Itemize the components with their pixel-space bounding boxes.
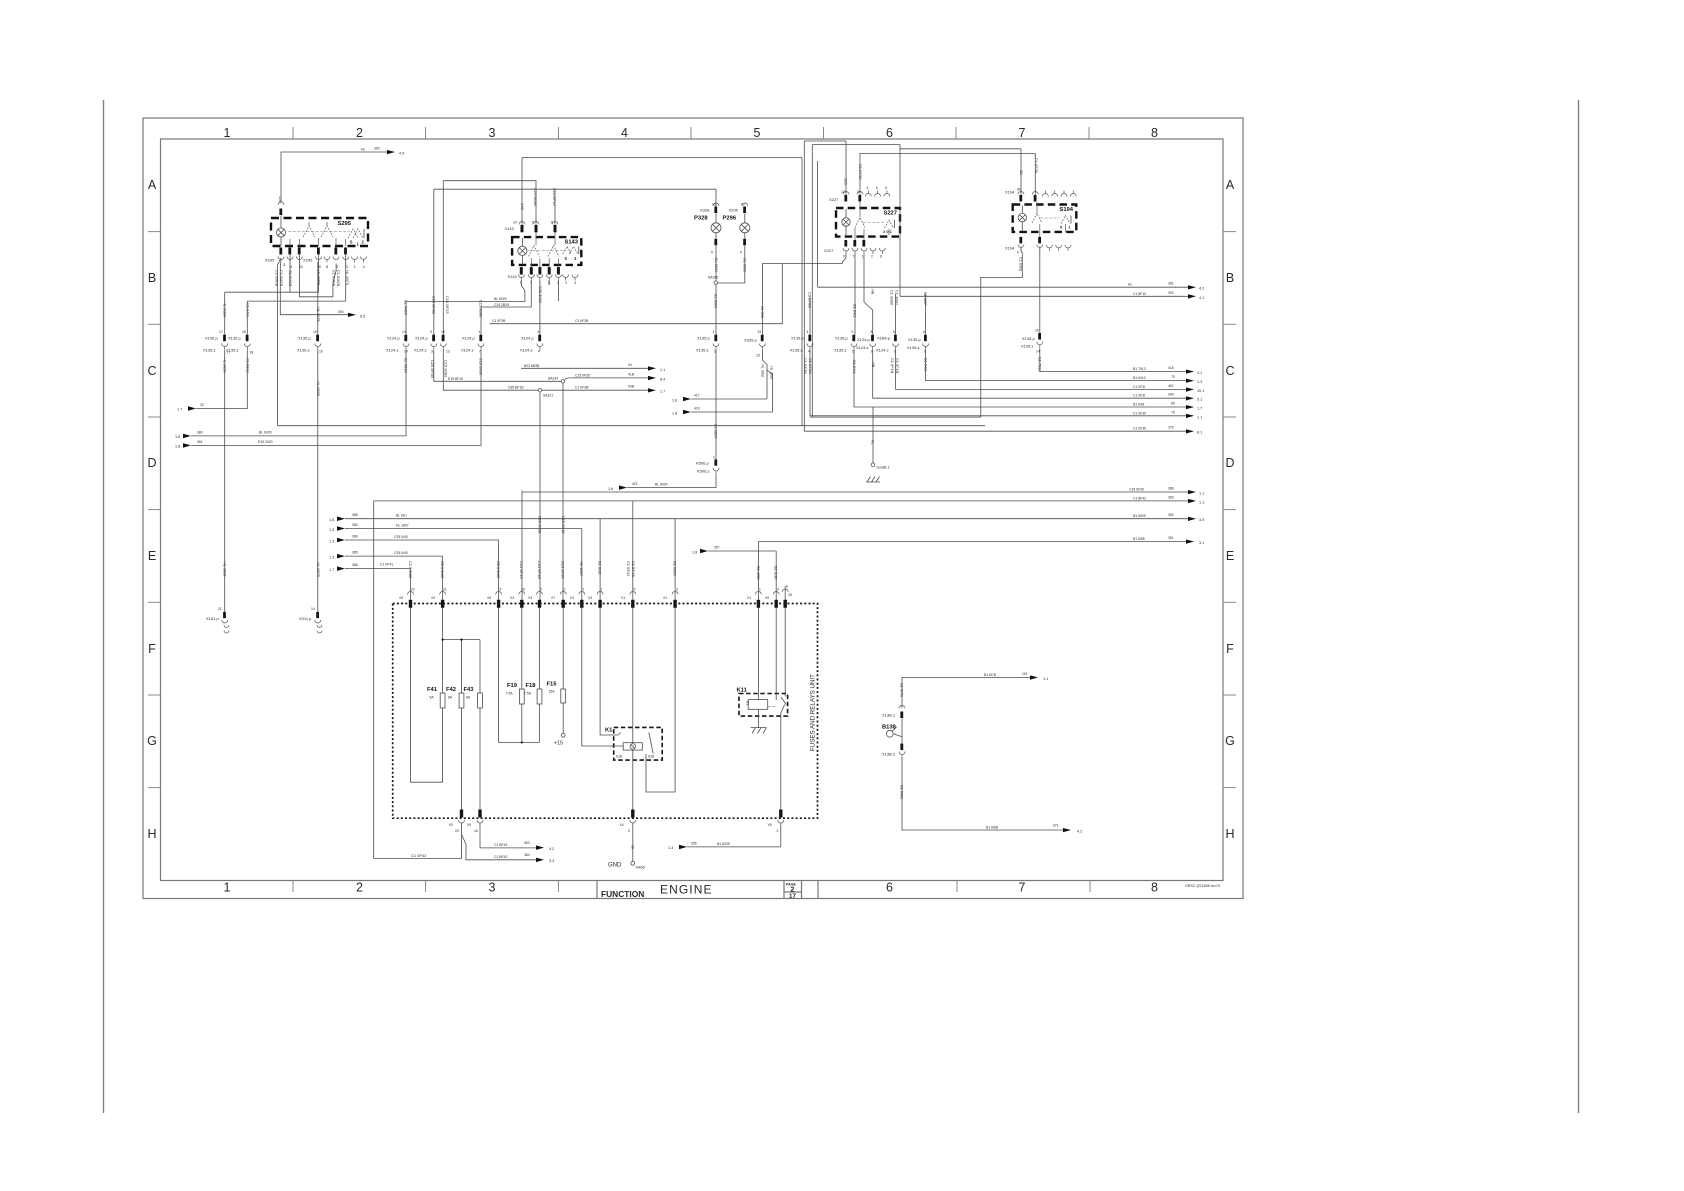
- svg-text:C25 04I0: C25 04I0: [394, 551, 408, 555]
- svg-text:C25 BF1B: C25 BF1B: [537, 561, 542, 579]
- svg-text:1.8: 1.8: [672, 411, 677, 415]
- svg-text:C25 BF3B: C25 BF3B: [432, 296, 437, 314]
- svg-text:X296: X296: [729, 208, 739, 213]
- svg-text:38: 38: [630, 845, 634, 849]
- svg-text:2: 2: [356, 881, 363, 895]
- svg-text:6: 6: [893, 330, 895, 334]
- connector X124 pin 14: [386, 300, 409, 373]
- S295 top connector pin 11B: [278, 196, 284, 219]
- left arrow 386 C1 0F41: [329, 563, 411, 572]
- wire h2 C15 2B29: [481, 280, 531, 335]
- svg-text:6: 6: [551, 221, 553, 225]
- svg-text:7: 7: [1019, 881, 1026, 895]
- column numbers bottom: [224, 881, 1159, 895]
- svg-text:1: 1: [479, 330, 481, 334]
- fuse F41: [427, 687, 445, 708]
- svg-text:1: 1: [713, 456, 715, 460]
- svg-text:1.6: 1.6: [672, 398, 677, 402]
- svg-text:B1 64I1: B1 64I1: [853, 304, 858, 317]
- svg-text:X6: X6: [487, 596, 491, 600]
- svg-text:401: 401: [1168, 384, 1174, 388]
- svg-text:1.8: 1.8: [175, 435, 180, 439]
- svg-text:K11: K11: [737, 688, 748, 694]
- S143 switch contact 1: [529, 246, 540, 257]
- fuse unit top pin rects: [409, 600, 787, 608]
- svg-text:P296: P296: [723, 216, 737, 222]
- wire S227 pin3 up to bus C: [859, 153, 861, 195]
- svg-text:BL 6024: BL 6024: [713, 294, 718, 309]
- inner drawing frame: [161, 139, 1224, 881]
- svg-text:GND: GND: [608, 863, 622, 869]
- wire P328 down through splice: [715, 246, 717, 281]
- svg-text:B1 6I7B: B1 6I7B: [900, 683, 905, 697]
- svg-text:E15 BF15: E15 BF15: [448, 377, 463, 381]
- svg-text:4: 4: [807, 330, 809, 334]
- svg-text:C25 04I0: C25 04I0: [394, 535, 408, 539]
- svg-text:X124.s: X124.s: [386, 348, 398, 353]
- svg-text:X124.p: X124.p: [387, 336, 400, 341]
- svg-text:1.3: 1.3: [1197, 380, 1202, 384]
- connector X124 pin 1/7: [461, 300, 484, 376]
- arrow line C1 0F3B from SA221: [542, 385, 666, 394]
- svg-text:6.5: 6.5: [360, 315, 365, 319]
- svg-text:X4: X4: [620, 823, 624, 827]
- svg-text:1.3: 1.3: [329, 528, 334, 532]
- svg-text:C1 0F39: C1 0F39: [1133, 411, 1146, 415]
- svg-text:1.8: 1.8: [692, 550, 697, 554]
- connector X124 pin 9: [414, 330, 437, 354]
- svg-text:C1 0F3B: C1 0F3B: [492, 319, 506, 323]
- svg-text:C85 BF1B: C85 BF1B: [508, 386, 524, 390]
- wire SA234 down to fuse unit: [562, 383, 564, 600]
- svg-text:6: 6: [923, 330, 925, 334]
- svg-text:H: H: [1225, 827, 1234, 841]
- svg-text:C1 8F10: C1 8F10: [1133, 292, 1146, 296]
- top bus C to S194 switch: [860, 152, 1035, 154]
- svg-text:4: 4: [574, 281, 576, 285]
- svg-text:C1 04I2: C1 04I2: [245, 303, 250, 317]
- svg-text:C25 B03B: C25 B03B: [533, 188, 538, 206]
- connector X124 pin 18: [430, 330, 450, 378]
- svg-text:14: 14: [1036, 350, 1040, 354]
- svg-text:X135.s: X135.s: [696, 348, 708, 353]
- svg-text:1: 1: [583, 588, 585, 592]
- svg-text:C1 BF43: C1 BF43: [494, 843, 507, 847]
- svg-text:HL: HL: [871, 440, 875, 444]
- svg-text:1.7: 1.7: [329, 568, 334, 572]
- svg-text:18: 18: [441, 330, 445, 334]
- svg-text:+15: +15: [554, 741, 563, 747]
- svg-text:X194: X194: [1005, 246, 1015, 251]
- svg-text:HL 30B: HL 30B: [770, 366, 775, 379]
- svg-text:X135.p: X135.p: [908, 337, 921, 342]
- svg-text:2: 2: [777, 829, 779, 833]
- connector X315.p: [299, 607, 322, 633]
- svg-text:26: 26: [521, 588, 525, 592]
- S227 internal dash link: [863, 222, 884, 224]
- rotated labels on risers: [432, 296, 450, 314]
- svg-text:14: 14: [311, 607, 315, 611]
- svg-text:A: A: [1226, 178, 1235, 192]
- svg-text:C1 BF42: C1 BF42: [494, 855, 507, 859]
- svg-text:364: 364: [524, 853, 530, 857]
- arrow line C15 0F35 from SA234: [565, 372, 666, 381]
- svg-text:HL 1026: HL 1026: [223, 562, 228, 577]
- svg-text:F18: F18: [526, 683, 537, 689]
- sensor B138: [882, 719, 902, 744]
- svg-text:B: B: [1226, 271, 1234, 285]
- svg-text:3: 3: [857, 190, 859, 194]
- svg-text:8: 8: [1151, 126, 1158, 140]
- svg-text:C1 BF4B: C1 BF4B: [631, 561, 636, 577]
- svg-text:X135.p: X135.p: [697, 336, 710, 341]
- svg-text:S194: S194: [1059, 207, 1073, 213]
- K1 switch: [649, 733, 653, 754]
- connector X135 pin 3: [696, 330, 719, 354]
- S194 internal stubs: [1037, 202, 1066, 237]
- S194 top pins X194: [1005, 188, 1076, 202]
- svg-text:C1 0F1B: C1 0F1B: [890, 358, 895, 374]
- svg-text:C1 0F39: C1 0F39: [1133, 427, 1146, 431]
- right connector row pin 6b: [907, 292, 929, 371]
- K11 ground symbol: [751, 728, 767, 734]
- svg-text:X124.p: X124.p: [857, 337, 870, 342]
- wire S143 pin2 down: [557, 280, 559, 301]
- svg-text:7.5A: 7.5A: [506, 692, 514, 696]
- svg-text:C1 30B2: C1 30B2: [894, 290, 899, 305]
- connector X135 pin 15: [744, 330, 765, 358]
- svg-text:417: 417: [694, 394, 700, 398]
- svg-text:X3: X3: [528, 596, 532, 600]
- svg-text:F: F: [1226, 642, 1234, 656]
- svg-text:2: 2: [540, 588, 542, 592]
- K11 wires and switch: [757, 608, 759, 728]
- svg-text:5A: 5A: [466, 696, 471, 700]
- svg-text:18: 18: [242, 330, 246, 334]
- wire riser x782.3 from 263.5 to C1 0F3B line: [781, 264, 783, 324]
- S194 switch contact: [1032, 214, 1042, 224]
- svg-text:X124.s: X124.s: [876, 348, 888, 353]
- svg-text:3: 3: [628, 829, 630, 833]
- page right border line: [1578, 100, 1580, 1113]
- svg-text:C1 0F3I: C1 0F3I: [1133, 385, 1145, 389]
- svg-text:385: 385: [352, 551, 358, 555]
- svg-text:C1 05IB: C1 05IB: [1018, 257, 1023, 271]
- svg-text:HL: HL: [361, 148, 365, 152]
- arrow 357 into riser B1 6I10: [692, 546, 776, 601]
- svg-text:C1 0M1B: C1 0M1B: [288, 270, 293, 287]
- ground Gnd8.1: [866, 407, 890, 482]
- svg-text:X3: X3: [510, 596, 514, 600]
- svg-text:7.5A: 7.5A: [524, 692, 532, 696]
- svg-text:1: 1: [759, 588, 761, 592]
- svg-text:X135.p: X135.p: [228, 336, 241, 341]
- svg-text:X142: X142: [508, 274, 518, 279]
- svg-text:K506.s: K506.s: [697, 469, 709, 474]
- bus riser x812 down to row D: [811, 145, 813, 418]
- svg-text:3: 3: [565, 281, 567, 285]
- svg-text:1: 1: [224, 126, 231, 140]
- splice SA221: [538, 389, 553, 398]
- svg-text:F19: F19: [507, 683, 518, 689]
- wire X124-13.s to SA221: [443, 351, 538, 391]
- svg-text:1.1: 1.1: [1197, 371, 1202, 375]
- S143 bottom pins X142: [508, 267, 579, 285]
- svg-text:C2.5 B4I0: C2.5 B4I0: [408, 561, 413, 579]
- svg-text:X1: X1: [621, 596, 625, 600]
- svg-text:A: A: [148, 178, 157, 192]
- svg-text:C15 0F39: C15 0F39: [1129, 488, 1144, 492]
- wire K1 switch to pin X1-3 riser: [646, 608, 675, 792]
- K11 coil: [746, 700, 768, 710]
- svg-text:3.3: 3.3: [549, 859, 554, 863]
- svg-text:4.1: 4.1: [1199, 296, 1204, 300]
- right connector row X135/X124 pin 4: [790, 292, 813, 374]
- left arrow 361 E15 2020: [175, 440, 273, 449]
- wire S194 lamp bottom to mesh riser: [980, 247, 1022, 277]
- lamp inside S295: [277, 219, 286, 246]
- svg-text:HL 1026: HL 1026: [223, 358, 228, 373]
- switch unit S194 dashed box: [1013, 205, 1077, 232]
- grid column ticks top: [293, 127, 1089, 139]
- svg-text:5: 5: [754, 126, 761, 140]
- svg-text:X9: X9: [449, 823, 453, 827]
- svg-text:B1 6039: B1 6039: [717, 842, 730, 846]
- svg-text:4.2: 4.2: [1077, 830, 1082, 834]
- F41 wire and fuse: [442, 608, 444, 782]
- row letters left: [147, 178, 157, 841]
- svg-text:C15 BF13: C15 BF13: [552, 188, 557, 206]
- fuse F43: [464, 687, 483, 708]
- svg-text:5A: 5A: [430, 696, 435, 700]
- svg-text:6: 6: [886, 126, 893, 140]
- svg-text:4: 4: [621, 126, 628, 140]
- svg-text:BL 6029: BL 6029: [259, 431, 272, 435]
- svg-text:SA221: SA221: [543, 394, 553, 398]
- connector X13B.2: [882, 744, 905, 758]
- svg-text:393: 393: [374, 147, 380, 151]
- svg-text:C: C: [147, 364, 156, 378]
- svg-text:10: 10: [841, 190, 845, 194]
- FUSES AND RELAYS UNIT dotted box: [393, 604, 818, 819]
- F19 feed loop from pin5: [499, 608, 540, 743]
- svg-text:2: 2: [871, 255, 873, 259]
- fuse unit feed risers to top pins: [410, 569, 412, 600]
- wire from S295 pin3 down left column: [278, 258, 281, 426]
- wire X124-3.s to SA234: [434, 351, 562, 382]
- svg-text:363: 363: [524, 841, 530, 845]
- row letters right: [1225, 178, 1235, 841]
- svg-text:H1 1B07: H1 1B07: [579, 561, 584, 576]
- splice SA185: [708, 276, 718, 285]
- row B arrows HL 391 / C1 8F10: [818, 161, 1205, 300]
- indicator lamp P328: [694, 203, 721, 274]
- svg-text:9: 9: [740, 251, 742, 255]
- K1 coil feed from H1 1B07: [582, 608, 623, 746]
- wire X135-16 to arrow B1 7513: [1040, 349, 1202, 375]
- svg-text:HL 1807: HL 1807: [396, 523, 409, 527]
- wire through K1 coil to X4-3: [632, 608, 634, 813]
- svg-text:1: 1: [862, 255, 864, 259]
- svg-text:X124.s: X124.s: [856, 345, 868, 350]
- svg-text:C15 BF13: C15 BF13: [445, 296, 450, 314]
- page left border line: [103, 100, 105, 1113]
- svg-text:419: 419: [694, 407, 700, 411]
- wire X124-14.s down to left arrow 380: [191, 351, 406, 436]
- svg-text:7: 7: [853, 255, 855, 259]
- fuse F42: [446, 687, 464, 708]
- svg-text:S1B: S1B: [616, 755, 622, 759]
- svg-text:353: 353: [1168, 495, 1174, 499]
- S143 switch contact right 0/1: [563, 247, 579, 262]
- svg-text:3: 3: [431, 350, 433, 354]
- S295 internal stubs: [290, 222, 346, 246]
- connector X151.p: [206, 607, 229, 633]
- svg-text:S295: S295: [337, 221, 351, 227]
- svg-text:2 0 1: 2 0 1: [883, 229, 893, 234]
- indicator lamp P296: [723, 203, 750, 273]
- svg-text:4.2: 4.2: [1199, 287, 1204, 291]
- svg-text:361: 361: [197, 440, 203, 444]
- svg-text:B1 6I10: B1 6I10: [774, 566, 779, 580]
- svg-text:5: 5: [500, 588, 502, 592]
- svg-text:B1 6I55: B1 6I55: [1133, 537, 1145, 541]
- relay K1 dashed box: [605, 727, 662, 760]
- switch unit S227 dashed box: [836, 208, 900, 237]
- svg-text:3.5: 3.5: [1199, 518, 1204, 522]
- svg-text:X124.p: X124.p: [415, 336, 428, 341]
- svg-text:21: 21: [218, 607, 222, 611]
- svg-text:7: 7: [1019, 126, 1026, 140]
- svg-text:B1 7513: B1 7513: [1133, 367, 1146, 371]
- S295 switch contact right with positions 0 1 2: [348, 229, 365, 247]
- wire S227 pin1 stub: [864, 254, 873, 335]
- svg-text:C25 BF3B: C25 BF3B: [430, 360, 435, 378]
- svg-text:384: 384: [352, 523, 358, 527]
- top bus A horizontal: [522, 157, 802, 159]
- svg-text:C1 0F3I: C1 0F3I: [1133, 394, 1145, 398]
- svg-text:X1: X1: [663, 596, 667, 600]
- svg-text:1.3: 1.3: [668, 846, 673, 850]
- wire K506 to arrow 421 BL 6024: [608, 474, 716, 491]
- svg-text:C1 8F42: C1 8F42: [1133, 496, 1146, 500]
- svg-text:B1 4I55: B1 4I55: [756, 566, 761, 579]
- svg-text:2: 2: [356, 126, 363, 140]
- svg-text:20: 20: [455, 829, 459, 833]
- connector X124 pin 4: [520, 330, 543, 354]
- fuse unit bottom pin rects: [460, 810, 783, 818]
- svg-text:X136.s: X136.s: [297, 348, 309, 353]
- svg-text:2: 2: [564, 588, 566, 592]
- grid row ticks right: [1223, 232, 1236, 788]
- svg-text:394: 394: [338, 310, 344, 314]
- svg-text:C1 0M0B: C1 0M0B: [275, 270, 280, 287]
- svg-text:X135.s: X135.s: [226, 348, 238, 353]
- svg-text:3: 3: [489, 126, 496, 140]
- svg-text:34: 34: [628, 363, 632, 367]
- risers above right connector row: [809, 296, 811, 335]
- bottom connector cups and ids: [459, 820, 784, 823]
- lamp inside S143: [518, 238, 527, 265]
- svg-text:X143: X143: [505, 226, 515, 231]
- top bus B to S194 lamp: [804, 140, 846, 142]
- vertical wire 41 306 to X135-15: [761, 264, 763, 335]
- lamp inside S194: [1018, 206, 1026, 232]
- svg-text:E15 2020: E15 2020: [258, 440, 273, 444]
- svg-text:B1 6I6B: B1 6I6B: [986, 826, 999, 830]
- svg-text:B1 6529: B1 6529: [673, 561, 678, 576]
- svg-text:32: 32: [200, 403, 204, 407]
- wire S194 switch down to X135-16: [1039, 247, 1041, 333]
- svg-text:9: 9: [843, 255, 845, 259]
- svg-text:X124.s: X124.s: [520, 348, 532, 353]
- svg-text:G: G: [1225, 734, 1235, 748]
- left arrow 384 HL 1807: [329, 523, 582, 532]
- fuse unit rotated wire labels above pins: [408, 561, 779, 580]
- svg-text:4.2: 4.2: [549, 847, 554, 851]
- svg-text:X9: X9: [399, 596, 403, 600]
- svg-text:X4: X4: [588, 596, 592, 600]
- wire SA221 down to fuse unit: [539, 392, 541, 600]
- svg-text:41 306: 41 306: [760, 306, 765, 318]
- svg-text:1.1: 1.1: [1199, 492, 1204, 496]
- svg-text:X135.s: X135.s: [203, 348, 215, 353]
- grid column ticks bottom: [293, 881, 1090, 893]
- S194 internal dash link: [1040, 217, 1060, 219]
- svg-text:6: 6: [886, 881, 893, 895]
- svg-text:392: 392: [1168, 291, 1174, 295]
- svg-text:HL 1B26: HL 1B26: [223, 302, 228, 317]
- svg-text:BL 6029: BL 6029: [494, 297, 507, 301]
- svg-text:X135.p: X135.p: [835, 336, 848, 341]
- svg-text:HL: HL: [1128, 283, 1132, 287]
- svg-text:C: C: [1225, 364, 1234, 378]
- bus E S143 pin5: [443, 181, 536, 225]
- svg-text:X135.p: X135.p: [791, 336, 804, 341]
- row E long wire 518.7: [329, 513, 1204, 522]
- right connector row pin 6a: [876, 290, 900, 374]
- svg-text:17: 17: [219, 330, 223, 334]
- svg-text:17: 17: [789, 893, 796, 900]
- svg-text:D: D: [147, 456, 156, 470]
- svg-text:FUNCTION: FUNCTION: [601, 889, 644, 899]
- svg-text:C1 0F41: C1 0F41: [380, 563, 393, 567]
- svg-text:1.1: 1.1: [1199, 500, 1204, 504]
- svg-text:78: 78: [1171, 410, 1175, 414]
- svg-text:HB: HB: [871, 289, 876, 295]
- svg-text:B: B: [148, 271, 156, 285]
- svg-text:1.6: 1.6: [608, 487, 613, 491]
- wire down to bottom arrow B1 6I6B: [900, 758, 1083, 834]
- svg-text:X1: X1: [747, 596, 751, 600]
- svg-text:79: 79: [1171, 375, 1175, 379]
- S227 internal stubs: [855, 202, 889, 240]
- svg-text:8: 8: [871, 330, 873, 334]
- svg-text:C1 0M2B: C1 0M2B: [336, 270, 341, 287]
- svg-text:386: 386: [352, 563, 358, 567]
- svg-text:H: H: [147, 827, 156, 841]
- arrow 417: [672, 394, 767, 403]
- right connector row pin 5: [834, 330, 857, 373]
- svg-text:Gnd8.1: Gnd8.1: [877, 465, 891, 470]
- svg-text:C15 0F35: C15 0F35: [575, 373, 590, 377]
- title block separators: [597, 881, 818, 899]
- right arrows row C group: [1133, 375, 1204, 419]
- lamp inside S227: [842, 209, 850, 236]
- svg-text:D: D: [1225, 456, 1234, 470]
- sensor B138 top arrow B1 6I7B: [902, 672, 1048, 681]
- svg-text:3: 3: [676, 588, 678, 592]
